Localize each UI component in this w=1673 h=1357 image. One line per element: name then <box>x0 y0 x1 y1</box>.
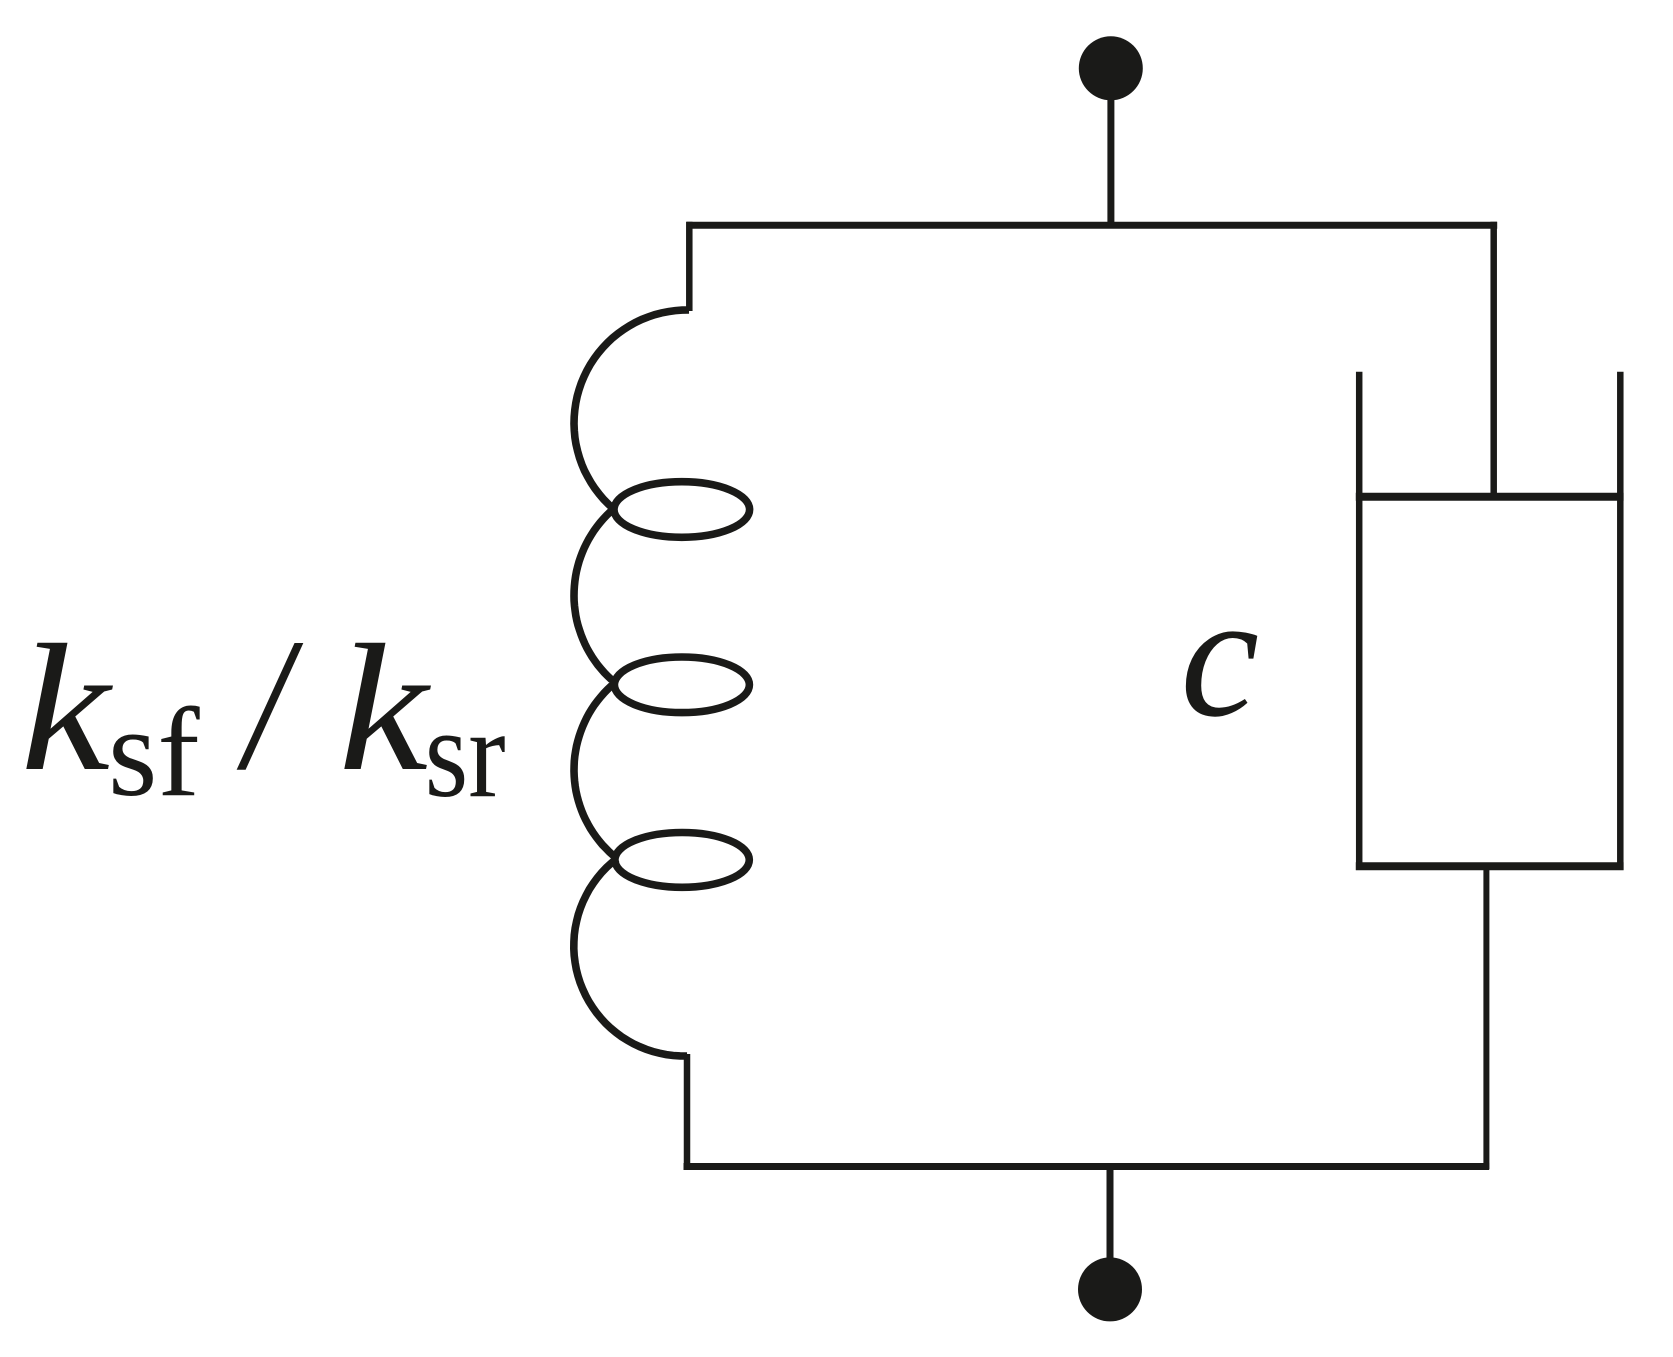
svg-text:sf: sf <box>108 683 200 823</box>
node: top terminal <box>1079 36 1143 226</box>
svg-text:/: / <box>236 599 304 809</box>
wire: bottom bar <box>684 1163 1490 1170</box>
svg-text:sr: sr <box>425 683 506 824</box>
damper piston plate <box>1356 493 1624 501</box>
damper cylinder (walls + bottom) <box>1356 372 1624 870</box>
label k_sf / k_sr (spring rates front/rear) <box>21 599 506 823</box>
wire: damper bottom rod <box>1483 866 1489 1169</box>
wire: spring bottom lead <box>684 1054 691 1170</box>
wire: top bar <box>687 222 1498 229</box>
svg-text:c: c <box>1180 558 1259 754</box>
svg-text:k: k <box>339 607 432 809</box>
wire: spring top lead <box>686 222 693 311</box>
spring k_sf/k_sr coil <box>574 310 750 1056</box>
svg-text:k: k <box>21 607 114 809</box>
node: bottom terminal <box>1078 1164 1142 1321</box>
wire: damper top rod <box>1490 222 1497 500</box>
